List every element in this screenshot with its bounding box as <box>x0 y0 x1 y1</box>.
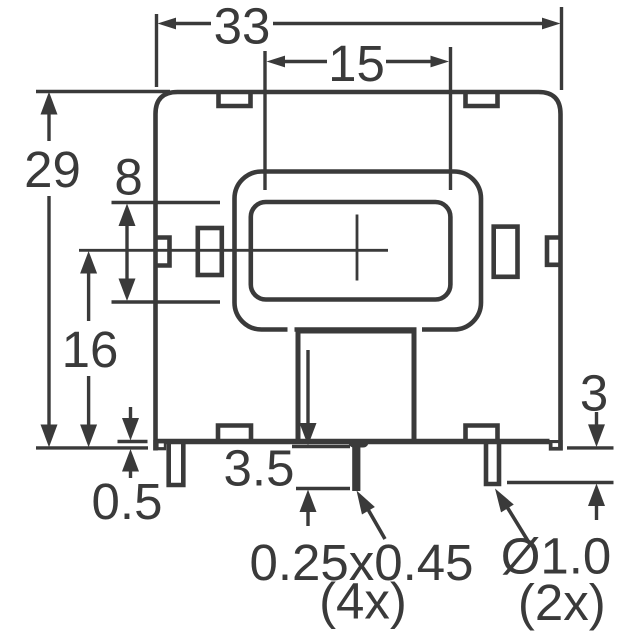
aperture inner window <box>251 202 451 300</box>
centerline vertical (crosshair) <box>356 215 359 281</box>
svg-text:(2x): (2x) <box>518 574 606 631</box>
dim 3.5 up arrowhead <box>300 490 317 513</box>
aperture outer ring <box>235 172 482 330</box>
svg-text:0.5: 0.5 <box>92 473 163 530</box>
leader arrowhead at right pin <box>489 485 514 513</box>
right pin Ø1.0 <box>486 441 499 484</box>
dim 15 right arrowhead <box>431 56 450 68</box>
dim 8 top arrowhead <box>119 204 136 227</box>
body bottom edge (seating face) <box>156 439 550 445</box>
dim 3.5 lower reference line <box>296 487 350 490</box>
dim 16 line lower part <box>87 376 90 426</box>
dim 3 up arrowhead <box>588 484 605 507</box>
dim 8 bottom extension line <box>112 300 221 303</box>
dim 3.5 down arrowhead <box>300 423 317 446</box>
dim 15 line right part <box>386 60 433 63</box>
dim 0.5 up arrow stem <box>129 471 132 478</box>
dim 0.5 down arrowhead <box>122 418 139 441</box>
left corner foot <box>153 440 166 450</box>
svg-text:3: 3 <box>580 365 608 422</box>
svg-text:29: 29 <box>24 141 81 198</box>
dim 33 right arrowhead <box>542 18 561 30</box>
svg-text:3.5: 3.5 <box>224 439 295 496</box>
left edge tab <box>156 238 170 266</box>
dim 3.5 upper reference line <box>292 445 350 448</box>
dim 3 down arrow stem <box>595 412 598 426</box>
dim 15 left arrowhead <box>267 56 286 68</box>
dim 16 line upper part <box>87 272 90 321</box>
centerline horizontal <box>79 249 388 252</box>
left inner tab <box>198 228 222 275</box>
dim 16 top arrowhead <box>80 251 97 274</box>
svg-text:8: 8 <box>114 148 142 205</box>
dim 15 left extension line <box>263 51 266 190</box>
lower bobbin section <box>298 331 414 440</box>
dim 8 bottom arrowhead <box>119 279 136 302</box>
dim 0.5 up arrowhead <box>122 449 139 472</box>
dim 29 line upper part <box>47 112 50 141</box>
dim 3.5 down arrow stem <box>306 350 309 424</box>
right inner tab <box>494 227 518 277</box>
leader arrowhead at blade pin <box>350 487 375 515</box>
dim 33 line left part <box>174 22 211 25</box>
leader line to blade pin <box>362 499 385 539</box>
dim 3 down arrowhead <box>588 424 605 447</box>
dim 29 line lower part <box>47 196 50 426</box>
dim 0.5 down arrow stem <box>129 407 132 419</box>
body outline (top and sides) <box>156 92 561 451</box>
seating plane extension line left <box>36 446 148 449</box>
dim 33 left extension line <box>155 14 158 87</box>
bottom-left standoff boss <box>218 426 251 441</box>
dim 0.5 upper reference line <box>118 440 148 443</box>
dim 33 right extension line <box>560 7 563 90</box>
top-left notch <box>219 93 251 106</box>
left pin Ø1.0 <box>169 441 184 485</box>
right edge tab <box>547 238 560 265</box>
dim 15 right extension line <box>449 47 452 190</box>
dim 29 top extension line <box>36 90 170 93</box>
bottom-right standoff boss <box>466 426 498 441</box>
dim 16 bottom arrowhead <box>80 425 97 448</box>
dim 33 line right part <box>273 22 544 25</box>
svg-text:(4x): (4x) <box>319 573 407 630</box>
dim 8 top extension line <box>112 201 221 204</box>
top-right notch <box>466 93 498 106</box>
pin tip extension line right <box>507 481 614 484</box>
svg-text:33: 33 <box>214 0 271 55</box>
center blade pin 0.25x0.45 <box>352 439 360 491</box>
right corner foot <box>549 440 563 451</box>
dim 8 line <box>125 226 128 279</box>
gap where bobbin wall meets aperture (left) <box>288 326 295 334</box>
dim 29 top arrowhead <box>41 92 58 115</box>
dim 29 bottom arrowhead <box>41 425 58 448</box>
blade pin base fillet <box>348 439 369 448</box>
svg-text:16: 16 <box>62 321 119 378</box>
svg-text:15: 15 <box>328 35 385 92</box>
seating plane extension line right <box>567 446 614 449</box>
gap where bobbin wall meets aperture (right) <box>417 326 423 334</box>
dim 33 left arrowhead <box>158 18 177 30</box>
leader line to right pin <box>504 502 528 541</box>
dim 3 up arrow stem <box>595 505 598 520</box>
dim 3.5 up arrow stem <box>306 511 309 526</box>
dim 15 line left part <box>283 60 327 63</box>
